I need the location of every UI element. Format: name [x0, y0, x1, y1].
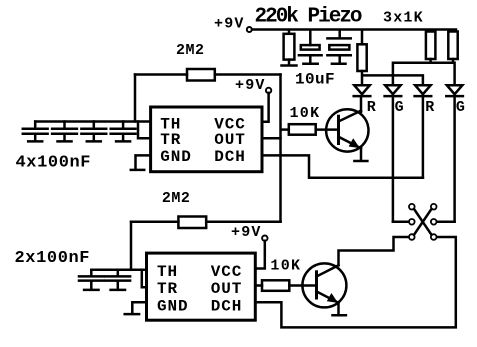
ground tick Q2 — [333, 314, 346, 317]
wire node A (1Kbc bottoms to LED2/LED4 anodes) — [393, 63, 455, 85]
svg-text:TR: TR — [157, 280, 178, 298]
wire OUT1 stub — [262, 137, 281, 140]
svg-text:OUT: OUT — [214, 131, 246, 149]
svg-text:GND: GND — [160, 148, 192, 166]
ground tick under 220k — [282, 64, 297, 67]
op-amp U1 555 box — [151, 107, 262, 172]
resistor 1K c — [448, 32, 457, 63]
LED D2 G — [385, 85, 402, 222]
svg-text:+9V: +9V — [231, 224, 262, 241]
ground tick C2a — [28, 140, 42, 143]
svg-text:G: G — [395, 99, 404, 116]
wire VCC2 — [255, 241, 264, 269]
wire 10K-1 left — [282, 128, 289, 131]
switch S1 crossover contacts — [409, 204, 437, 240]
wire 2M2-2 to TH2 rail — [130, 222, 133, 270]
ground tick C2c — [87, 140, 101, 143]
capacitor C2d 100nF — [111, 122, 136, 141]
wire 2M2-1 to TH1 rail — [134, 75, 137, 122]
svg-text:OUT: OUT — [211, 280, 243, 298]
wire TH1-TR1 tie — [138, 122, 151, 139]
svg-text:DCH: DCH — [211, 297, 243, 315]
LED D4 G — [446, 85, 463, 222]
svg-text:2x100nF: 2x100nF — [15, 249, 91, 268]
piezo transducer — [327, 31, 350, 63]
svg-text:10uF: 10uF — [295, 71, 335, 89]
svg-text:TR: TR — [160, 131, 181, 149]
ground tick C3b — [111, 289, 125, 292]
resistor 1K b — [426, 32, 436, 63]
ground tick C3a — [84, 289, 98, 292]
switch S1 cross links — [414, 209, 432, 235]
svg-text:+9V: +9V — [214, 16, 245, 33]
svg-text:G: G — [456, 99, 465, 116]
wire 2M2-2 right — [206, 221, 280, 224]
ground tick U1 — [131, 169, 144, 172]
wire VCC1 — [262, 93, 269, 122]
ground tick under C1 — [303, 62, 317, 65]
transistor Q2 — [302, 263, 346, 307]
capacitor C2a 100nF — [23, 122, 48, 141]
svg-text:+9V: +9V — [235, 77, 266, 94]
wire 10K-2 right to Q2 base — [289, 284, 316, 287]
wire 2M2-1 right — [215, 73, 281, 76]
svg-text:2M2: 2M2 — [176, 42, 205, 59]
wire OUT2 stub — [255, 284, 262, 287]
wire TH2-TR2 tie — [142, 270, 147, 287]
capacitor C3a 100nF — [79, 270, 104, 289]
wire 2M2-1 left — [135, 73, 187, 76]
+9V terminal T3 — [262, 236, 267, 241]
LED D1 R — [354, 85, 371, 112]
capacitor C1 10uF — [299, 31, 322, 63]
capacitor C3b 100nF — [106, 270, 131, 289]
ground pin GND1 — [136, 155, 151, 168]
svg-text:DCH: DCH — [214, 148, 246, 166]
resistor 2M2 (bottom) — [178, 217, 206, 229]
resistor 10K (bottom) — [262, 280, 289, 291]
resistor 1K a — [357, 31, 366, 72]
wire caps1 rail to TH1 — [35, 120, 150, 123]
transistor Q1 — [326, 109, 368, 151]
+9V terminal T2 — [266, 88, 271, 93]
LED D3 R — [415, 85, 432, 178]
wire caps2 rail to TH2 — [91, 269, 146, 272]
capacitor C2b 100nF — [52, 122, 77, 141]
svg-text:GND: GND — [157, 297, 189, 315]
ground tick C2d — [116, 140, 130, 143]
ground tick U2 — [125, 313, 139, 316]
wire node B (1Ka bottom to LED1/LED3 anodes) — [362, 71, 423, 85]
ground tick Q1 — [354, 160, 367, 163]
svg-text:4x100nF: 4x100nF — [16, 154, 92, 173]
wire 2M2-2 left — [131, 221, 178, 224]
svg-text:R: R — [367, 99, 376, 116]
wire switch bottom-right to DCH2 — [255, 237, 455, 327]
op-amp U2 555 box — [147, 253, 256, 320]
wire Q2 emitter — [337, 303, 340, 313]
resistor 10K (top) — [289, 124, 316, 135]
svg-text:VCC: VCC — [211, 263, 243, 281]
svg-text:220k Piezo: 220k Piezo — [255, 5, 362, 28]
wire switch mid-right to LED D4 — [437, 221, 455, 224]
wire Q2 collector to switch bottom-left — [339, 237, 409, 265]
svg-text:2M2: 2M2 — [162, 190, 191, 207]
resistor 220k — [284, 31, 295, 65]
wire 10K-1 right to Q1 base — [316, 128, 339, 131]
svg-text:TH: TH — [157, 263, 178, 281]
wire Q1 emitter — [360, 148, 363, 159]
resistor 2M2 (top) — [187, 69, 215, 81]
svg-text:10K: 10K — [290, 105, 321, 122]
ground tick under piezo — [332, 62, 346, 65]
svg-text:R: R — [425, 99, 434, 116]
capacitor C2c 100nF — [81, 122, 106, 141]
wire switch mid-left to LED D2 — [393, 221, 409, 224]
svg-text:3x1K: 3x1K — [383, 10, 424, 27]
+9V terminal T1 — [247, 27, 252, 32]
ground pin GND2 — [132, 302, 146, 313]
wire DCH1 to LED D3 cathode — [262, 155, 423, 177]
wire +9V rail — [252, 28, 456, 31]
svg-text:10K: 10K — [270, 257, 301, 274]
wire OUT1 feedback vertical — [279, 75, 282, 222]
ground tick C2b — [58, 140, 72, 143]
